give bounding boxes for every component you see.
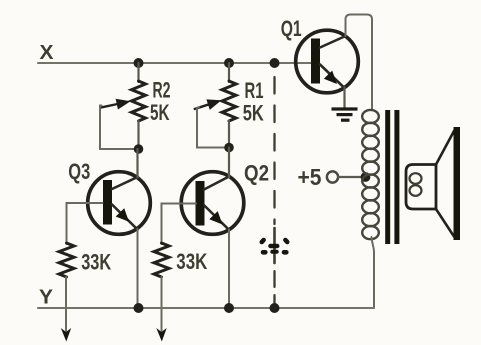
wire Q3 base lead <box>67 203 103 244</box>
transformer core bars <box>388 110 397 244</box>
transistor Q1 base bar <box>311 39 320 84</box>
junction R1 bottom <box>224 143 234 153</box>
wire R1 top lead <box>228 63 230 82</box>
wire Q1 emitter to ground <box>343 88 345 109</box>
junction Y / Q2 emitter <box>224 303 234 313</box>
speaker cone top line <box>436 131 454 165</box>
wire Q1 collector to transformer top <box>346 15 373 111</box>
spark gap / contact symbol <box>262 228 287 263</box>
svg-text:Q3: Q3 <box>68 159 90 184</box>
wire +5 to transformer tap <box>338 176 363 178</box>
junction X / Q1 base <box>270 58 280 68</box>
svg-text:33K: 33K <box>176 249 207 274</box>
+5 terminal circle <box>327 171 338 182</box>
ground symbol <box>332 109 358 120</box>
wire R2 bottom lead <box>137 121 139 149</box>
wire 33K (right) down lead <box>161 277 163 331</box>
junction X / R2 <box>134 58 144 68</box>
resistor 33K (left) zigzag <box>59 243 74 277</box>
wire Q2 base lead <box>162 204 197 245</box>
svg-text:Q1: Q1 <box>281 16 302 41</box>
transistor Q2 emitter stroke with arrow <box>204 206 229 230</box>
svg-text:Y: Y <box>39 285 53 308</box>
svg-text:Q2: Q2 <box>244 161 269 186</box>
transistor Q1 circle <box>296 30 359 93</box>
svg-text:33K: 33K <box>81 249 111 274</box>
resistor 33K (right) zigzag <box>154 243 169 277</box>
transistor Q3 base bar <box>103 180 112 225</box>
R2 wiper arrow <box>99 96 131 113</box>
wire R2 wiper loop <box>100 106 136 150</box>
wire transformer bottom to Y bus <box>372 237 375 308</box>
svg-text:5K: 5K <box>243 100 264 125</box>
transistor Q3 circle <box>88 172 151 235</box>
junction X / R1 <box>224 58 234 68</box>
transistor Q2 base bar <box>196 181 205 226</box>
arrow output (left column) <box>61 328 71 342</box>
wire X bus <box>38 62 311 64</box>
R1 wiper arrow <box>193 95 223 114</box>
svg-text:R1: R1 <box>245 78 264 103</box>
wire R1 bottom lead <box>228 121 230 148</box>
dashed column wire (lower) <box>273 263 275 308</box>
wire R2 top lead <box>137 63 139 82</box>
wire 33K (left) down lead <box>65 277 67 331</box>
resistor R2 zigzag <box>132 81 146 121</box>
speaker magnet housing <box>406 165 436 210</box>
transistor Q3 collector stroke <box>112 177 138 189</box>
transistor Q3 emitter stroke with arrow <box>112 205 138 230</box>
speaker cone bottom line <box>436 209 454 237</box>
transistor Q1 emitter stroke with arrow <box>320 65 345 89</box>
wire Q3 emitter to Y bus <box>137 229 139 308</box>
svg-text:5K: 5K <box>150 100 170 125</box>
speaker cone front bar <box>454 127 461 240</box>
junction transformer center tap <box>361 172 371 182</box>
transistor Q2 circle <box>181 172 244 235</box>
transistor Q2 collector stroke <box>204 177 229 190</box>
svg-text:+5: +5 <box>298 164 322 190</box>
wire R1 wiper loop <box>197 107 226 148</box>
wire Q2 emitter to Y bus <box>228 230 230 309</box>
speaker voice coil loops <box>410 173 422 196</box>
transformer primary coil <box>362 110 379 239</box>
arrow output (right column) <box>156 328 166 342</box>
wire Y bus <box>38 307 374 309</box>
svg-text:X: X <box>40 41 54 64</box>
junction Y / Q3 emitter <box>134 303 144 313</box>
svg-text:R2: R2 <box>153 78 171 103</box>
wire Q2 collector to R1 <box>228 148 230 178</box>
junction R2 bottom <box>134 144 144 154</box>
transistor Q1 collector stroke <box>320 36 346 48</box>
junction Y / dashed column <box>270 303 280 313</box>
resistor R1 zigzag <box>222 81 236 121</box>
wire Q3 collector to R2 <box>136 149 138 178</box>
dashed column wire (upper) <box>273 68 275 224</box>
